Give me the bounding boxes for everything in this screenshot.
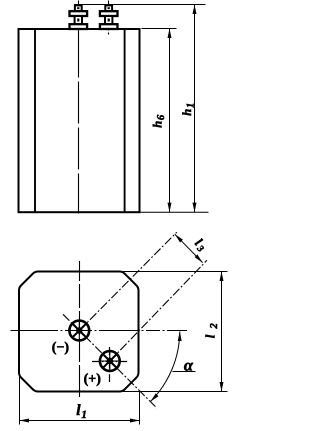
svg-text:l3: l3 — [191, 235, 210, 254]
svg-text:h1: h1 — [180, 103, 197, 116]
svg-text:h6: h6 — [150, 114, 167, 128]
svg-text:(−): (−) — [52, 341, 70, 356]
svg-text:l2: l2 — [203, 322, 221, 338]
svg-text:(+): (+) — [84, 372, 102, 387]
svg-text:α: α — [184, 356, 194, 375]
svg-text:l1: l1 — [76, 402, 87, 421]
